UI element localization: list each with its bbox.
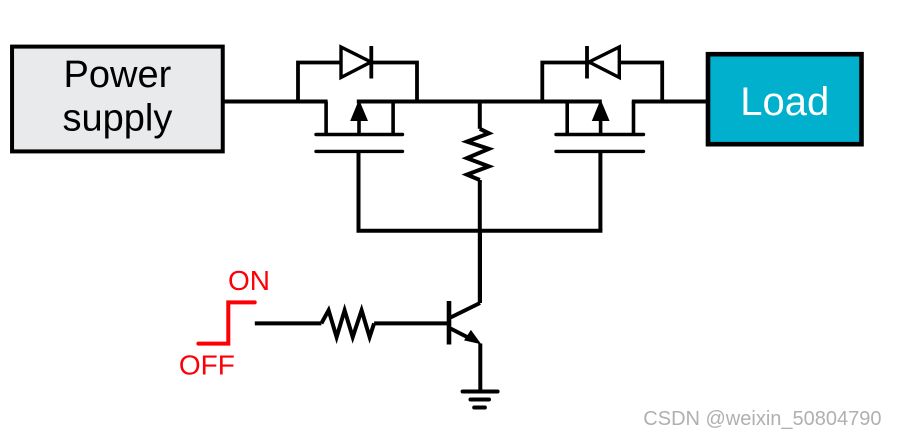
svg-text:CSDN @weixin_50804790: CSDN @weixin_50804790 <box>643 408 881 430</box>
watermark <box>643 408 881 430</box>
power supply box <box>12 47 223 152</box>
svg-text:supply: supply <box>62 98 172 140</box>
wire: R1 bottom to Q3 collector <box>478 180 482 303</box>
body diode D2 (points left) <box>587 46 619 79</box>
svg-text:ON: ON <box>228 265 270 296</box>
wire: input to base resistor <box>255 321 322 325</box>
body diode D2 loop wire <box>542 63 662 102</box>
wire: Q1 body node to Q2 body node <box>357 100 602 104</box>
wire: Q1 gate drop <box>357 151 361 230</box>
resistor R2 (base, horizontal) <box>321 310 374 337</box>
body diode D1 (points right) <box>341 46 371 79</box>
signal step waveform <box>198 302 254 343</box>
ground <box>463 392 498 408</box>
MOSFET Q1 <box>316 100 403 152</box>
resistor R1 (gate pull, vertical) <box>467 102 489 181</box>
ON label <box>228 265 270 296</box>
MOSFET Q2 <box>556 100 644 152</box>
wire: Q3 emitter to ground <box>478 344 482 392</box>
body diode D1 loop wire <box>298 63 417 102</box>
wire: base resistor to Q3 base <box>374 321 449 325</box>
wire: power supply to Q1 drain <box>221 100 328 104</box>
svg-text:Load: Load <box>740 80 829 124</box>
wire: Q2 gate drop <box>598 151 602 230</box>
wire: gate bus <box>357 229 603 233</box>
wire: Q3 collector up <box>478 231 482 303</box>
load box <box>708 54 862 144</box>
svg-text:OFF: OFF <box>179 350 235 381</box>
wire: Q2 drain to load <box>632 100 709 104</box>
svg-text:Power: Power <box>64 54 172 96</box>
OFF label <box>179 350 235 381</box>
transistor Q3 (NPN) <box>449 301 481 345</box>
